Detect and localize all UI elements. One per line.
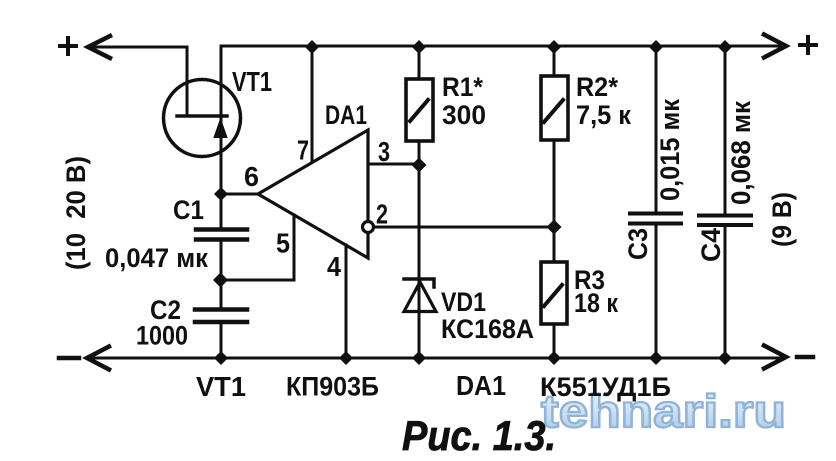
svg-text:С3: С3 bbox=[623, 228, 653, 260]
zener diode VD1 bbox=[404, 279, 436, 312]
svg-text:0,047 мк: 0,047 мк bbox=[105, 243, 208, 273]
svg-text:4: 4 bbox=[327, 251, 341, 282]
svg-text:VT1: VT1 bbox=[196, 371, 246, 402]
wire pin 2 to R2/R3 node bbox=[374, 226, 554, 229]
node pin4 on bottom rail bbox=[339, 351, 353, 365]
svg-text:7: 7 bbox=[297, 135, 309, 166]
svg-text:3: 3 bbox=[378, 136, 390, 167]
capacitor C4 bbox=[699, 46, 751, 358]
top rail wire bbox=[221, 45, 783, 48]
wire pin 7 bbox=[311, 46, 314, 162]
wire pin 6 bbox=[221, 193, 258, 196]
svg-text:С1: С1 bbox=[173, 195, 204, 225]
svg-text:С4: С4 bbox=[696, 228, 726, 262]
minus sign bottom-left bbox=[59, 356, 79, 361]
node C3 top bbox=[649, 40, 663, 54]
svg-text:R2*: R2* bbox=[576, 72, 618, 102]
node C1/C2/pin5 junction bbox=[213, 273, 228, 288]
node R1/pin3/VD1 junction bbox=[412, 158, 427, 173]
wire R1 node down to VD1 bbox=[418, 165, 421, 358]
svg-text:VT1: VT1 bbox=[232, 66, 272, 97]
svg-text:0,015 мк: 0,015 мк bbox=[655, 99, 685, 201]
svg-text:VD1: VD1 bbox=[441, 287, 486, 317]
svg-text:Рис. 1.3.: Рис. 1.3. bbox=[402, 412, 556, 459]
svg-text:(10 20 В): (10 20 В) bbox=[61, 156, 91, 270]
node R3 on bottom rail bbox=[547, 351, 561, 365]
arrow top-left bbox=[88, 36, 110, 58]
node C3 bottom bbox=[649, 351, 663, 365]
node pin7 on top rail bbox=[305, 40, 319, 54]
arrow bottom-left bbox=[87, 347, 109, 370]
svg-text:1000: 1000 bbox=[136, 321, 188, 351]
pin 2 inversion bubble bbox=[363, 222, 374, 233]
svg-text:DA1: DA1 bbox=[456, 370, 506, 401]
capacitor C2 bbox=[195, 280, 247, 358]
node C4 top bbox=[718, 40, 732, 54]
arrow top-right bbox=[764, 35, 786, 58]
node R1 on top rail bbox=[412, 40, 426, 54]
svg-text:6: 6 bbox=[244, 161, 259, 192]
node C2 on bottom rail bbox=[214, 351, 228, 365]
resistor R2 bbox=[541, 46, 568, 227]
svg-text:(9 В): (9 В) bbox=[767, 192, 797, 247]
svg-text:18 к: 18 к bbox=[574, 288, 618, 318]
svg-text:DA1: DA1 bbox=[325, 100, 367, 130]
node: VT1 source / C1 / pin6 junction bbox=[214, 187, 228, 201]
svg-text:КС168А: КС168А bbox=[441, 314, 534, 344]
svg-text:5: 5 bbox=[276, 228, 290, 259]
resistor R1 bbox=[406, 46, 433, 165]
svg-text:КП903Б: КП903Б bbox=[286, 372, 379, 402]
wire: plus lead to VT1 gate bbox=[88, 47, 187, 113]
node VD1 on bottom rail bbox=[412, 351, 426, 365]
arrow bottom-right bbox=[764, 346, 786, 369]
svg-text:2: 2 bbox=[376, 199, 388, 230]
node R2/R3/pin2 junction bbox=[547, 220, 562, 235]
svg-text:К551УД1Б: К551УД1Б bbox=[540, 372, 671, 402]
resistor R3 bbox=[541, 227, 567, 358]
svg-text:R1*: R1* bbox=[442, 72, 483, 102]
op-amp DA1 bbox=[258, 130, 368, 258]
wire pin 5 bbox=[221, 215, 294, 280]
svg-text:300: 300 bbox=[442, 100, 486, 130]
plus sign top-right bbox=[800, 37, 816, 53]
wire pin 4 bbox=[345, 245, 348, 358]
transistor VT1 bbox=[164, 46, 241, 194]
svg-text:7,5 к: 7,5 к bbox=[576, 100, 631, 130]
bottom rail wire bbox=[87, 357, 783, 360]
svg-text:0,068 мк: 0,068 мк bbox=[726, 101, 756, 205]
plus sign top-left bbox=[60, 38, 76, 54]
capacitor C1 bbox=[196, 194, 247, 280]
minus sign bottom-right bbox=[797, 355, 813, 360]
node C4 bottom bbox=[718, 351, 732, 365]
capacitor C3 bbox=[630, 46, 681, 358]
wire pin 3 bbox=[368, 163, 419, 166]
node R2 on top rail bbox=[547, 40, 561, 54]
